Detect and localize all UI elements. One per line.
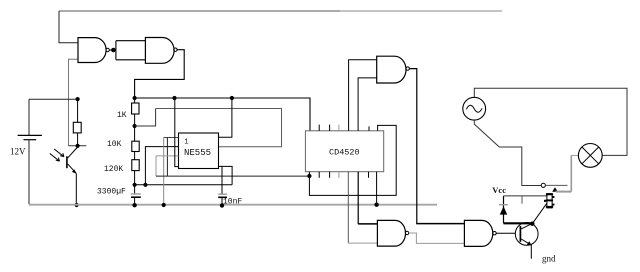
svg-text:NE555: NE555: [184, 148, 211, 158]
wire Vcc feed line: [504, 195, 547, 197]
wire counter out to U4B lower input: [347, 172, 349, 243]
nand gate U1B: [145, 38, 177, 64]
wire U4B output to U5 lower input: [409, 233, 465, 243]
pin tick top 7: [368, 126, 370, 130]
node C1 rail junction: [132, 203, 136, 207]
wire lamp left drop: [570, 155, 572, 191]
pin tick top 3: [329, 125, 331, 131]
wire R2 top lead: [77, 99, 79, 122]
svg-text:Vcc: Vcc: [492, 185, 506, 195]
nand gate U1A: [78, 38, 109, 63]
wire 555 discharge vertical: [166, 138, 168, 177]
wire counter Q out to U4A input a: [349, 60, 377, 131]
resistor R4 10K: [132, 126, 139, 160]
light arrow 2: [54, 149, 64, 157]
wire switch to lamp grey: [556, 191, 572, 193]
node divider junction 1: [133, 124, 137, 128]
node timing junction: [133, 183, 137, 187]
wire collector to relay coil: [532, 203, 547, 224]
pin tick top 4: [338, 125, 340, 131]
diode D1: [499, 196, 508, 223]
ground rail bottom: [29, 204, 437, 206]
svg-text:3300µF: 3300µF: [97, 188, 126, 197]
ic U2 555 box: [179, 133, 219, 169]
svg-text:12V: 12V: [10, 147, 26, 157]
wire switch right segment: [545, 184, 567, 186]
wire ac bottom to switch: [474, 120, 541, 186]
wire timing node to 555 trigger: [135, 184, 233, 186]
node C2 rail junction: [220, 203, 224, 207]
svg-text:1K: 1K: [117, 111, 127, 120]
node rail junction C: [230, 96, 234, 100]
wire U4A output down to U5 input: [409, 69, 416, 224]
light arrow 1: [50, 154, 60, 162]
pin tick bottom 7: [368, 172, 370, 178]
node branch junction: [143, 183, 147, 187]
wire NAND1 upper input from top line: [59, 11, 78, 43]
switch S1 pivot: [541, 183, 545, 187]
node enable junction: [307, 174, 311, 178]
wire 555 reset stub: [156, 155, 179, 157]
wire R2 bottom lead: [77, 133, 79, 146]
resistor R3 1K: [132, 98, 139, 126]
svg-text:10K: 10K: [107, 140, 122, 149]
node collector junction: [76, 144, 80, 148]
svg-text:CD4520: CD4520: [329, 148, 360, 158]
node U1A output junction: [111, 48, 116, 53]
svg-text:10nF: 10nF: [223, 198, 242, 207]
transistor Q2: [515, 223, 538, 259]
ic U3 CD4520 box: [305, 131, 383, 172]
node pin ground junction: [162, 203, 166, 207]
node collector junction: [530, 222, 534, 226]
wire top feedback line: [59, 10, 340, 12]
svg-text:1: 1: [184, 138, 188, 146]
wire rail y108 to 555 right pin: [156, 109, 282, 147]
nand gate U4A: [377, 56, 410, 83]
wire long line to counter enable: [156, 175, 309, 177]
wire U1A output to U1B inputs: [109, 41, 145, 60]
node counter ground junction: [374, 203, 378, 207]
node emitter to rail: [75, 203, 79, 207]
wire top supply rail y98: [135, 98, 310, 131]
relay coil K1: [545, 194, 553, 208]
ac source G1: [463, 97, 486, 120]
wire U1B output down to divider top: [135, 50, 185, 98]
node rail junction A: [133, 96, 137, 100]
wire 555 left pin from top rail: [175, 98, 179, 167]
battery B1 12V: [18, 99, 42, 204]
wire battery top feed: [29, 98, 78, 100]
wire counter Q out to U4A input b: [358, 78, 377, 131]
lamp L1: [578, 144, 602, 168]
switch arrow: [552, 187, 558, 192]
pin tick bottom 3: [329, 172, 331, 178]
wire 555 pin to ground rail: [163, 138, 165, 205]
svg-text:gnd: gnd: [542, 254, 556, 264]
wire U5 output to Q2 base: [496, 232, 515, 234]
wire ac top to lamp loop: [474, 88, 627, 155]
wire lamp left stub: [571, 154, 578, 156]
svg-text:120K: 120K: [104, 165, 123, 174]
wire Vcc stub: [521, 196, 523, 204]
wire 555 left pin stub y137: [164, 137, 179, 139]
capacitor C1 3300uF: [131, 185, 141, 205]
wire diode to collector thick: [504, 222, 533, 224]
node rail junction B: [172, 96, 176, 100]
wire divider tap to 555 rail: [135, 109, 156, 127]
pin tick bottom 2: [318, 172, 320, 178]
capacitor C2 10nF: [218, 166, 227, 205]
wire stub at phototransistor collector: [69, 145, 87, 147]
wire 555 output pin right: [219, 166, 233, 184]
nand gate U4B: [377, 220, 408, 246]
node R2 top junction: [76, 97, 80, 101]
wire 555 vcc pin right to top rail: [219, 98, 232, 137]
resistor R5 120K: [132, 160, 139, 185]
wire NAND1 lower input vertical: [69, 59, 79, 146]
wire carry feedback loop: [309, 125, 396, 195]
wire reset corner down: [155, 156, 157, 176]
pin tick bottom 4: [338, 172, 340, 178]
nand gate U5: [464, 220, 496, 246]
pin tick top 2: [318, 125, 320, 131]
wire branch up to 555 left pin 2: [145, 147, 178, 185]
resistor R2: [73, 122, 81, 133]
transistor Q1 phototransistor: [67, 146, 78, 205]
wire counter out to U4B upper input: [357, 172, 359, 224]
wire counter ground pin: [376, 172, 378, 205]
